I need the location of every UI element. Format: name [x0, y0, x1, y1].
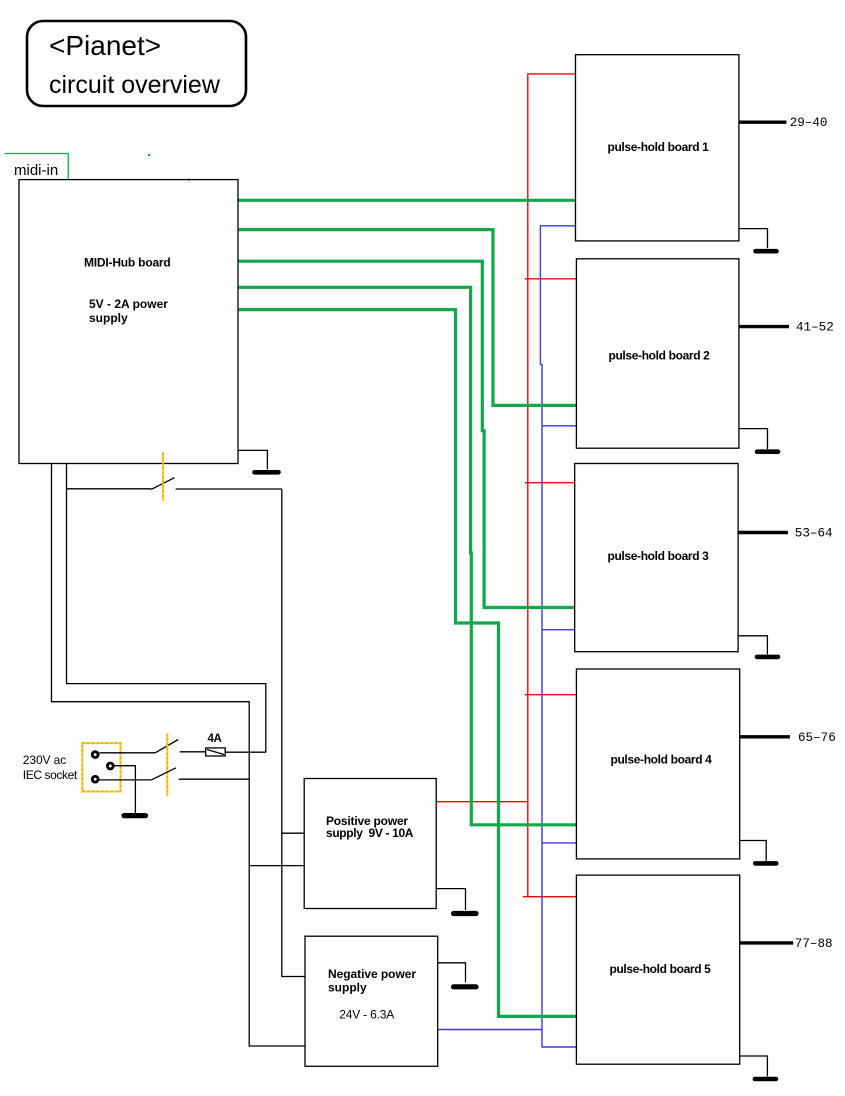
Positive power supply box PS1 [304, 779, 436, 909]
ground negative supply [438, 963, 466, 983]
live wire from pin L to switch S2a [100, 752, 156, 754]
earth wire from pin E [113, 766, 135, 813]
ground board 3 [738, 636, 767, 654]
green wire 5 (hub to board 5) [238, 310, 576, 1017]
MIDI-Hub board box U1 [19, 180, 238, 464]
midi-in wire (green bracket) [5, 154, 69, 180]
IEC earth ground bar [124, 813, 146, 818]
green wire 4 (hub to board 4) [238, 287, 576, 825]
pin L [92, 752, 98, 758]
svg-text:29–40: 29–40 [790, 116, 828, 130]
pin N [92, 776, 98, 782]
red speck artifact [188, 179, 190, 181]
ground of MIDI-Hub [238, 450, 267, 469]
svg-text:5V - 2A power: 5V - 2A power [89, 297, 168, 311]
blue wire to board 3 [542, 629, 575, 631]
svg-text:Negative power: Negative power [328, 967, 416, 981]
green wire 2 (hub to board 2) [238, 230, 576, 406]
svg-text:supply: supply [89, 311, 128, 325]
red wire to board 5 [523, 896, 576, 898]
key line 65-76 [740, 735, 790, 738]
blue wire to board 4 [542, 842, 576, 844]
svg-text:65–76: 65–76 [798, 731, 836, 745]
red wire from positive supply output [436, 801, 528, 803]
blue bus vertical from board1 down to board5 [540, 226, 576, 1047]
svg-text:230V ac: 230V ac [23, 753, 66, 767]
red wire to board 4 [525, 694, 577, 696]
svg-text:supply: supply [328, 981, 367, 995]
pulse-hold board 3 box [575, 464, 738, 652]
fuse output wire [225, 751, 266, 753]
Negative power supply box PS2 [305, 936, 438, 1066]
neutral wire from pin N to switch S2b [100, 779, 152, 781]
svg-text:supply 9V - 10A: supply 9V - 10A [326, 826, 414, 840]
fuse F1 [206, 748, 226, 756]
title box [27, 21, 246, 106]
ground board 2 [739, 429, 768, 449]
branch neutral into positive supply [249, 865, 304, 867]
red wire to board 2 [525, 278, 577, 280]
blue wire from negative supply output [438, 1029, 542, 1031]
hub neutral wire (left pin down to supplies) [52, 464, 306, 1047]
pulse-hold board 2 box [576, 259, 739, 448]
green speck artifact [148, 154, 150, 156]
pin E [107, 763, 113, 769]
svg-text:MIDI-Hub board: MIDI-Hub board [84, 256, 171, 270]
svg-text:pulse-hold board 3: pulse-hold board 3 [607, 549, 709, 563]
live feed down to supplies [282, 489, 305, 977]
svg-text:pulse-hold board 1: pulse-hold board 1 [607, 140, 709, 154]
ground board 5 [740, 1056, 768, 1076]
svg-text:41–52: 41–52 [796, 321, 834, 335]
pulse-hold board 4 box [576, 669, 739, 859]
key line 77-88 [740, 941, 794, 944]
ground positive supply [436, 889, 465, 910]
hub live wire (right pin down to fuse) [67, 464, 266, 753]
key line 29-40 [739, 120, 787, 123]
pulse-hold board 1 box [576, 55, 739, 241]
svg-text:pulse-hold board 5: pulse-hold board 5 [609, 962, 711, 976]
green wire 3 (hub to board 3) [238, 261, 575, 607]
svg-text:<Pianet>: <Pianet> [49, 30, 161, 61]
pulse-hold board 5 box [576, 875, 739, 1064]
red bus vertical from board1 down to board5 [528, 74, 576, 897]
branch live into positive supply [282, 832, 304, 834]
svg-text:pulse-hold board 2: pulse-hold board 2 [608, 349, 710, 363]
svg-text:4A: 4A [208, 733, 222, 745]
ground board 4 [740, 841, 767, 861]
svg-text:IEC socket: IEC socket [23, 768, 78, 782]
switch S1 actuator dashed [162, 453, 164, 501]
svg-text:53–64: 53–64 [795, 527, 833, 541]
blue wire to board 2 [542, 425, 576, 427]
svg-text:pulse-hold board 4: pulse-hold board 4 [610, 753, 712, 767]
key line 41-52 [739, 325, 789, 328]
key line 53-64 [738, 531, 788, 534]
svg-text:24V - 6.3A: 24V - 6.3A [339, 1008, 394, 1022]
svg-text:circuit overview: circuit overview [49, 71, 221, 99]
switch S2 actuator dashed [166, 734, 168, 796]
ground board 1 [739, 229, 768, 249]
green wire 1 (hub to board 1) [238, 199, 576, 202]
svg-text:77–88: 77–88 [795, 937, 833, 951]
IEC socket outline (yellow dashed) [82, 743, 120, 791]
hub power switch S1 [67, 488, 152, 490]
svg-text:midi-in: midi-in [14, 162, 58, 179]
red wire to board 3 [525, 482, 575, 484]
